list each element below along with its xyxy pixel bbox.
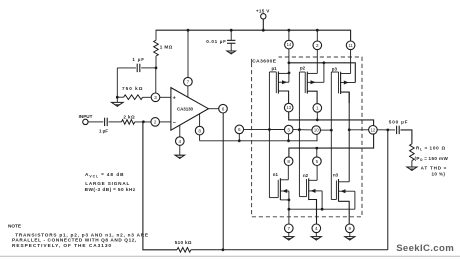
wire pin10 to gate3	[321, 129, 332, 131]
CA3600E package outline dashed box	[252, 57, 362, 217]
svg-text:+: +	[173, 96, 176, 102]
junction feedback / opamp out	[222, 248, 225, 251]
wire cap to node	[141, 67, 156, 69]
label 1 uF bypass	[132, 57, 144, 62]
svg-text:1 µF: 1 µF	[132, 57, 144, 62]
svg-text:p3: p3	[332, 66, 338, 71]
ground pin 9	[345, 233, 355, 241]
input terminal	[83, 119, 88, 124]
wire gate3 vertical	[330, 72, 332, 200]
resistor 510 kOhm	[177, 248, 191, 253]
junction gate3	[330, 129, 333, 132]
power terminal +15 V	[261, 14, 266, 31]
wire opamp output down	[222, 113, 224, 250]
resistor 2 kOhm	[122, 120, 135, 125]
page bottom rule	[0, 255, 460, 257]
wire pin14 from rail	[288, 30, 290, 40]
node pin 3	[151, 93, 160, 102]
svg-text:14: 14	[287, 42, 292, 47]
svg-text:NOTE: NOTE	[8, 223, 21, 228]
node pin 7 (array)	[285, 224, 294, 233]
label AT THD	[421, 166, 448, 171]
node pin 4	[176, 137, 185, 146]
label AVCL gain note	[85, 172, 125, 178]
node pin 8 (array)	[284, 157, 293, 166]
label LARGE SIGNAL	[85, 181, 130, 186]
label 500 uF	[389, 120, 409, 125]
wire pin7 to triangle	[187, 86, 189, 97]
label - inverting	[173, 121, 176, 127]
svg-text:4: 4	[315, 226, 318, 231]
wire p3 drain vertical	[348, 92, 350, 182]
svg-text:750 kΩ: 750 kΩ	[122, 86, 143, 91]
node pin 12	[369, 126, 378, 135]
resistor RL 100 Ohm	[410, 144, 415, 161]
svg-text:2: 2	[316, 43, 319, 48]
svg-text:−: −	[173, 121, 176, 127]
junction gate1	[268, 128, 271, 131]
svg-text:8: 8	[198, 128, 201, 133]
wire n-substrate bus	[289, 208, 355, 210]
junction n-sub bus / pin7 line	[288, 208, 291, 211]
node pin 11	[346, 41, 355, 50]
junction top rail / pin2 wire	[316, 29, 319, 32]
wire output feedback vertical	[387, 130, 389, 250]
node pin 1 (array)	[313, 104, 322, 113]
svg-text:8: 8	[287, 159, 290, 164]
svg-text:p1: p1	[272, 66, 278, 71]
wire RL to ground	[411, 161, 413, 167]
svg-text:2 kΩ: 2 kΩ	[123, 115, 135, 120]
wire pin2 to opamp	[160, 121, 171, 123]
svg-text:10 %): 10 %)	[432, 171, 446, 176]
svg-text:LARGE SIGNAL: LARGE SIGNAL	[85, 181, 130, 186]
node pin 9	[346, 224, 355, 233]
transistor n3	[331, 173, 355, 224]
wire 750k to pin3	[143, 96, 152, 98]
label CA3600E	[252, 59, 277, 65]
wire pin7 to rail	[187, 30, 189, 77]
svg-text:1: 1	[316, 106, 319, 111]
wire pin3g to gate2	[293, 129, 312, 131]
watermark SeekIC.com	[396, 243, 454, 254]
label PO value	[415, 156, 449, 162]
note line 3	[12, 243, 112, 248]
svg-text:6: 6	[238, 127, 241, 132]
node pin 14	[285, 40, 294, 49]
wire output stub	[208, 108, 218, 110]
junction top rail / 0.01uF cap	[230, 29, 233, 32]
junction output bus / pin1	[316, 119, 319, 122]
svg-text:10: 10	[314, 128, 319, 133]
wire pin8 to gate bus	[200, 135, 318, 141]
label NOTE	[8, 223, 21, 228]
resistor 750 kOhm	[124, 95, 143, 100]
node pin 2	[151, 118, 160, 127]
junction n1 source/substrate	[288, 199, 291, 202]
label + noninverting	[173, 96, 176, 102]
label 1 uF input	[99, 128, 108, 133]
wire pin6g to gate1	[244, 128, 285, 130]
node pin 2 (array)	[313, 41, 322, 50]
svg-text:510 kΩ: 510 kΩ	[175, 240, 192, 245]
wire node down to pin 3	[155, 68, 157, 93]
svg-text:0.01 µF: 0.01 µF	[206, 39, 226, 44]
ground RL	[407, 167, 417, 171]
svg-text:n3: n3	[333, 173, 339, 178]
svg-text:p2: p2	[300, 66, 306, 71]
wire pin8 to n1 drain	[287, 166, 289, 180]
transistor p2	[299, 66, 324, 104]
svg-text:1 MΩ: 1 MΩ	[160, 45, 173, 50]
wire p2 substrate up	[323, 63, 325, 83]
label 0.01 uF	[206, 39, 226, 44]
wire pin3 to opamp	[160, 96, 171, 98]
wire left vertical to 750k	[116, 68, 118, 97]
label CA3130	[177, 107, 194, 112]
junction sub bus / p2 substrate	[323, 61, 326, 64]
ground op-amp pin 4	[175, 145, 185, 159]
junction ndrain bus / pin5	[315, 147, 318, 150]
svg-text:2: 2	[154, 120, 157, 125]
svg-text:7: 7	[187, 79, 190, 84]
resistor 1 MOhm	[154, 40, 159, 56]
label 1 MOhm	[160, 45, 173, 50]
wire pin10 stub down	[316, 134, 318, 140]
wire cap node left	[117, 67, 136, 69]
capacitor 0.01uF decoupling	[227, 30, 235, 51]
transistor n1	[269, 172, 289, 224]
svg-text:9: 9	[349, 226, 352, 231]
junction 750k/ground	[116, 96, 119, 99]
transistor p3	[331, 66, 355, 103]
svg-text:AT THD =: AT THD =	[421, 166, 448, 171]
junction p1 source	[288, 72, 291, 75]
ground 0.01uF cap	[227, 51, 236, 55]
wire pin13 to output bus	[289, 112, 374, 126]
junction sub bus / pin14	[288, 61, 291, 64]
svg-text:RESPECTIVELY, OF THE CA3130: RESPECTIVELY, OF THE CA3130	[12, 243, 112, 248]
node pin 10 (array gate)	[312, 126, 321, 135]
node pin 6 output	[219, 104, 228, 113]
svg-text:CA3130: CA3130	[177, 107, 194, 112]
svg-text:INPUT: INPUT	[79, 114, 93, 119]
wire bottom feedback	[143, 122, 177, 250]
svg-text:500 µF: 500 µF	[389, 120, 409, 125]
capacitor 1uF bypass	[137, 64, 140, 72]
transistor n2	[299, 173, 322, 224]
junction top rail / pin7 wire	[187, 29, 190, 32]
transistor p1	[269, 66, 289, 103]
wire gate2 vertical	[298, 72, 300, 197]
wire pin5 stub up	[316, 148, 318, 157]
svg-text:TRANSISTORS p1, p2, p3 AND: TRANSISTORS p1, p2, p3 AND n1, n2, n3 AR…	[15, 232, 149, 237]
svg-text:PARALLEL - CONNECTED WITH Q8: PARALLEL - CONNECTED WITH Q8 AND Q12,	[12, 238, 137, 243]
ground 750k bias	[112, 97, 124, 107]
wire pin12 to cap	[377, 129, 395, 131]
capacitor 500uF output	[397, 126, 400, 134]
svg-text:5: 5	[316, 159, 319, 164]
note line 1	[15, 232, 149, 237]
junction top rail / pin14 wire	[288, 29, 291, 32]
label RL value	[416, 146, 446, 152]
label 750 kOhm	[122, 86, 143, 91]
junction inverting input node	[142, 120, 145, 123]
svg-text:BW(-3 dB) = 50 kHz: BW(-3 dB) = 50 kHz	[85, 187, 136, 192]
label 2 kOhm	[123, 115, 135, 120]
wire pin14 to p1 source/substrate	[288, 49, 290, 82]
wire pin4 stub	[179, 125, 181, 137]
wire gnd node to 750k	[117, 96, 123, 98]
svg-text:6: 6	[222, 106, 225, 111]
node pin 13	[284, 103, 293, 112]
wire pin1 stub	[316, 103, 318, 120]
junction gate lower wire / pin3g	[287, 139, 290, 142]
wire cap to load	[401, 130, 412, 144]
wire 1M to node	[155, 56, 157, 68]
wire rail to 1M resistor	[155, 30, 157, 40]
svg-text:4: 4	[179, 139, 182, 144]
wire pin5 to n2 drain	[316, 166, 318, 181]
svg-text:11: 11	[348, 43, 353, 48]
capacitor 1uF input coupling	[105, 118, 108, 126]
wire 510k to output	[191, 249, 388, 251]
junction gate2	[298, 128, 301, 131]
ground pin 4	[311, 233, 321, 241]
wire drain3 to pin12	[349, 129, 368, 131]
label BW note	[85, 187, 136, 192]
wire input to cap	[88, 121, 103, 123]
wire pin2b to p2 source	[316, 50, 318, 74]
junction pin3 bias node	[155, 67, 158, 70]
note line 2	[12, 238, 137, 243]
junction top rail / +15V terminal	[262, 29, 265, 32]
wire n-drain bus	[289, 134, 374, 157]
svg-text:+15 V: +15 V	[256, 8, 270, 13]
wire pin6g down	[238, 134, 240, 141]
wire pin11 to p3 source	[350, 50, 352, 74]
node pin 7	[184, 77, 193, 86]
op-amp U1 CA3130 triangle	[171, 88, 209, 131]
label +15 V	[256, 8, 270, 13]
node pin 5 (array)	[313, 157, 322, 166]
wire pin2b from rail	[316, 30, 318, 41]
node pin 4 (array)	[312, 224, 321, 233]
svg-text:3: 3	[287, 127, 290, 132]
svg-text:7: 7	[288, 226, 291, 231]
svg-text:n1: n1	[273, 172, 279, 177]
node pin 6 (array gate)	[235, 125, 244, 134]
svg-text:3: 3	[154, 95, 157, 100]
svg-text:SeekIC.com: SeekIC.com	[396, 243, 454, 254]
wire top +15V supply rail	[156, 30, 351, 41]
node pin 8	[195, 126, 204, 135]
junction drain3 / pin12 wire	[348, 128, 351, 131]
wire gate1 vertical	[268, 72, 270, 198]
wire pin3g down	[288, 134, 290, 141]
wire p-substrate bus	[289, 63, 355, 83]
svg-text:12: 12	[371, 127, 376, 132]
wire 2k to pin2 node	[135, 121, 151, 123]
junction output / feedback	[386, 129, 389, 132]
node pin 3 (array gate)	[284, 125, 293, 134]
label INPUT	[79, 114, 93, 119]
svg-text:13: 13	[286, 105, 291, 110]
ground pin 7	[284, 233, 294, 241]
svg-text:n2: n2	[303, 173, 309, 178]
label 510 kOhm	[175, 240, 192, 245]
svg-text:CA3600E: CA3600E	[252, 59, 277, 65]
junction gate lower wire / pin6g	[238, 139, 241, 142]
wire cap to 2k	[109, 121, 122, 123]
wire pin8 stub	[199, 114, 201, 126]
junction n2 substrate / bus	[321, 208, 324, 211]
label 10 percent	[432, 171, 446, 176]
svg-text:1 µF: 1 µF	[99, 128, 108, 133]
